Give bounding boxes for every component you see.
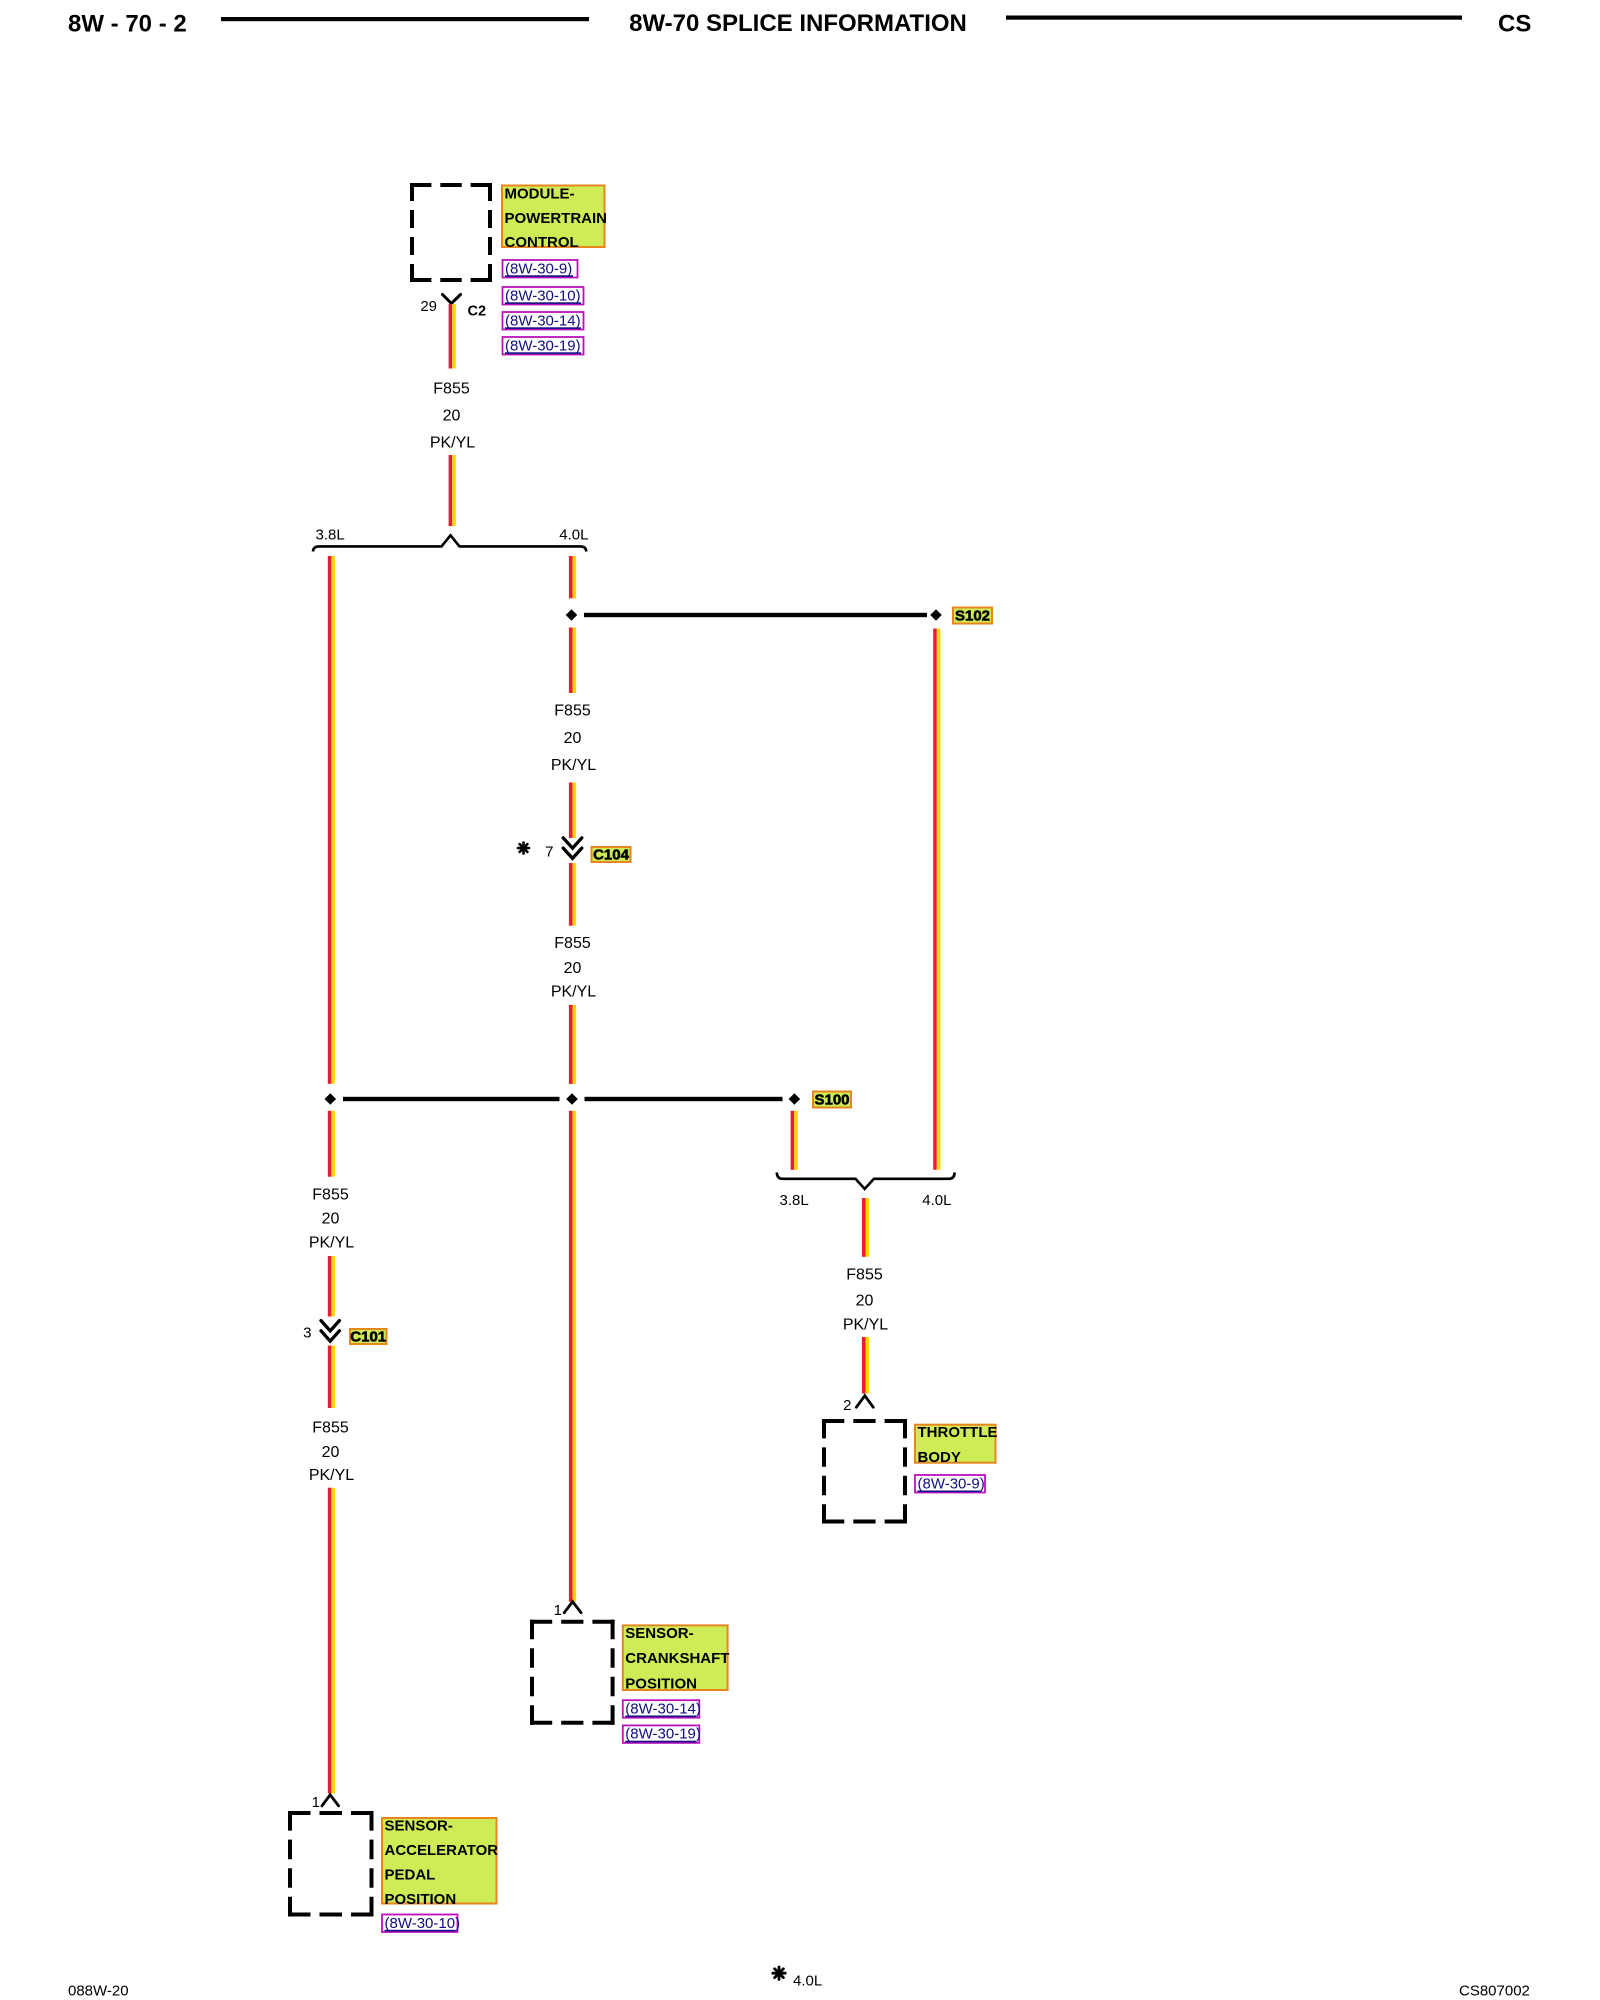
brace splitting to 3.8L / 4.0L [313, 535, 586, 551]
module-powertrain control dashed connector box [410, 183, 492, 282]
footnote 4.0L [793, 1972, 822, 1989]
header rule left [221, 17, 589, 21]
wire label F855 20 PK/YL (throttle) [843, 1267, 888, 1334]
svg-text:1: 1 [312, 1794, 320, 1811]
S102 junction diamond right [930, 609, 942, 621]
APP sensor dashed box [288, 1811, 374, 1917]
splice S102 bus [584, 613, 927, 617]
header rule right [1006, 16, 1462, 20]
4.0L label (top brace) [559, 527, 588, 544]
svg-text:20: 20 [322, 1211, 340, 1228]
svg-text:SENSOR-: SENSOR- [625, 1625, 693, 1642]
link 8W-30-19 (PCM) [503, 337, 584, 355]
pin 3 label [303, 1325, 311, 1342]
svg-text:CS: CS [1498, 11, 1531, 38]
svg-text:7: 7 [545, 844, 553, 861]
C101 label [350, 1328, 387, 1345]
link 8W-30-9 (PCM) [503, 260, 578, 278]
in-line connector C101 symbol [321, 1321, 339, 1342]
drawing number [68, 1983, 129, 2000]
svg-text:CONTROL: CONTROL [505, 234, 579, 251]
svg-text:F855: F855 [312, 1187, 349, 1204]
svg-text:PEDAL: PEDAL [385, 1866, 436, 1883]
CKP sensor label [623, 1625, 730, 1692]
wire segment G [328, 1488, 335, 1794]
header title [629, 10, 967, 37]
svg-text:3.8L: 3.8L [780, 1192, 809, 1209]
svg-text:(8W-30-9): (8W-30-9) [505, 260, 572, 277]
svg-text:BODY: BODY [918, 1449, 961, 1466]
APP sensor pin symbol [322, 1795, 339, 1806]
pin 7 label [545, 844, 553, 861]
svg-text:C2: C2 [468, 304, 487, 320]
svg-text:29: 29 [420, 298, 437, 315]
svg-text:PK/YL: PK/YL [309, 1467, 354, 1484]
svg-text:ACCELERATOR: ACCELERATOR [385, 1842, 499, 1859]
svg-text:8W - 70 - 2: 8W - 70 - 2 [68, 11, 187, 38]
wire 3.8L branch segment C [328, 556, 335, 1084]
wire segment F [328, 1346, 335, 1409]
svg-text:PK/YL: PK/YL [551, 757, 596, 774]
link 8W-30-19 (CKP) [623, 1725, 701, 1743]
throttle body label [915, 1424, 998, 1466]
wire label F855 20 PK/YL (left upper) [309, 1187, 354, 1252]
splice S100 bus left [343, 1097, 560, 1101]
diagram code [1459, 1983, 1530, 2000]
svg-text:S100: S100 [814, 1091, 849, 1108]
svg-text:20: 20 [443, 408, 461, 425]
wire segment P [862, 1198, 869, 1257]
svg-text:4.0L: 4.0L [559, 527, 588, 544]
svg-text:CS807002: CS807002 [1459, 1983, 1530, 2000]
svg-text:MODULE-: MODULE- [505, 186, 575, 203]
header section code [1498, 11, 1531, 38]
footnote marker asterisk [773, 1967, 785, 1980]
pin 2 label (throttle) [843, 1397, 851, 1414]
svg-text:F855: F855 [312, 1419, 349, 1436]
wire segment B [449, 455, 456, 526]
link 8W-30-14 (PCM) [503, 312, 584, 330]
brace merging 3.8L / 4.0L [777, 1172, 955, 1189]
wire segment K [569, 863, 576, 926]
svg-text:8W-70 SPLICE INFORMATION: 8W-70 SPLICE INFORMATION [629, 10, 967, 37]
S102 junction diamond left [566, 609, 578, 621]
svg-text:F855: F855 [554, 703, 591, 720]
wire segment M [569, 1111, 576, 1602]
wire label F855 20 PK/YL (center lower) [551, 935, 596, 1001]
svg-text:(8W-30-9): (8W-30-9) [918, 1476, 985, 1493]
wire label F855 20 PK/YL (top) [430, 381, 475, 452]
svg-text:C101: C101 [350, 1328, 386, 1345]
svg-text:1: 1 [554, 1602, 562, 1619]
wire label F855 20 PK/YL (center upper) [551, 703, 596, 775]
svg-text:(8W-30-19): (8W-30-19) [505, 337, 581, 354]
link 8W-30-10 (APP) [382, 1915, 460, 1933]
svg-text:F855: F855 [554, 935, 591, 952]
throttle body dashed box [822, 1419, 907, 1524]
svg-text:CRANKSHAFT: CRANKSHAFT [625, 1650, 729, 1667]
wire F855 segment A [449, 304, 456, 369]
svg-text:3: 3 [303, 1325, 311, 1342]
C2 label [468, 304, 487, 320]
link 8W-30-14 (CKP) [623, 1700, 701, 1718]
in-line connector C104 symbol [563, 838, 582, 859]
svg-text:(8W-30-14): (8W-30-14) [625, 1701, 701, 1718]
svg-text:POWERTRAIN: POWERTRAIN [505, 210, 608, 227]
link 8W-30-10 (PCM) [503, 287, 584, 305]
wire segment O (S100 to lower brace) [791, 1111, 798, 1170]
svg-text:POSITION: POSITION [385, 1891, 457, 1908]
svg-text:20: 20 [564, 730, 582, 747]
svg-text:(8W-30-14): (8W-30-14) [505, 312, 581, 329]
svg-text:4.0L: 4.0L [922, 1192, 951, 1209]
header page number [68, 11, 187, 38]
svg-text:PK/YL: PK/YL [551, 984, 596, 1001]
3.8L label (lower brace) [780, 1192, 809, 1209]
svg-text:PK/YL: PK/YL [843, 1317, 888, 1334]
CKP sensor pin symbol [564, 1602, 581, 1613]
connector C2 pin symbol [443, 295, 461, 304]
svg-text:PK/YL: PK/YL [430, 435, 475, 452]
svg-text:PK/YL: PK/YL [309, 1235, 354, 1252]
wire label F855 20 PK/YL (left lower) [309, 1419, 354, 1484]
wire segment E [328, 1256, 335, 1317]
wire 4.0L branch segment H [569, 556, 576, 598]
CKP sensor dashed box [530, 1620, 615, 1725]
splice S100 bus right [585, 1097, 783, 1101]
svg-text:20: 20 [564, 960, 582, 977]
svg-text:POSITION: POSITION [625, 1675, 697, 1692]
svg-text:F855: F855 [846, 1267, 883, 1284]
footnote asterisk (C104) [518, 843, 529, 854]
wire segment N (S102 to lower brace) [933, 629, 940, 1170]
svg-text:088W-20: 088W-20 [68, 1983, 129, 2000]
wire segment J [569, 783, 576, 839]
throttle body pin symbol [856, 1396, 873, 1408]
S100 label [813, 1091, 851, 1108]
svg-text:3.8L: 3.8L [316, 527, 345, 544]
svg-text:(8W-30-10): (8W-30-10) [505, 287, 581, 304]
svg-text:SENSOR-: SENSOR- [385, 1818, 453, 1835]
wire segment I [569, 628, 576, 694]
3.8L label (top brace) [316, 527, 345, 544]
module-powertrain control label [502, 186, 607, 252]
svg-text:20: 20 [322, 1444, 340, 1461]
svg-text:(8W-30-19): (8W-30-19) [625, 1726, 701, 1743]
S100 junction diamond right [789, 1093, 801, 1105]
S100 junction diamond center [566, 1093, 578, 1105]
APP sensor label [382, 1818, 498, 1908]
S100 junction diamond left [325, 1093, 337, 1105]
pin 1 label (CKP) [554, 1602, 562, 1619]
wire segment D [328, 1111, 335, 1177]
svg-text:C104: C104 [593, 846, 630, 863]
pin 29 label [420, 298, 437, 315]
link 8W-30-9 (throttle) [915, 1475, 985, 1493]
svg-text:20: 20 [856, 1292, 874, 1309]
C104 label [592, 846, 631, 863]
svg-text:F855: F855 [433, 381, 470, 398]
svg-text:S102: S102 [955, 607, 990, 624]
svg-text:2: 2 [843, 1397, 851, 1414]
wire segment Q [862, 1337, 869, 1394]
svg-text:THROTTLE: THROTTLE [918, 1424, 998, 1441]
wire segment L [569, 1005, 576, 1084]
svg-text:(8W-30-10): (8W-30-10) [385, 1915, 461, 1932]
svg-text:4.0L: 4.0L [793, 1972, 822, 1989]
4.0L label (lower brace) [922, 1192, 951, 1209]
pin 1 label (APP) [312, 1794, 320, 1811]
S102 label [953, 607, 992, 624]
